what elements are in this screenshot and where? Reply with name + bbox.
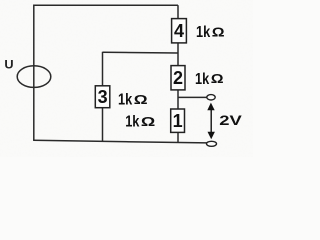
resistor R4 [172, 19, 187, 43]
wire bottom [33, 140, 207, 143]
svg-text:Ω: Ω [141, 115, 155, 129]
svg-text:3: 3 [98, 87, 108, 107]
wire R4 top stub [177, 5, 179, 18]
resistor R2 [171, 66, 185, 90]
svg-text:2: 2 [173, 68, 183, 88]
svg-text:Ω: Ω [211, 72, 224, 86]
svg-text:U: U [4, 58, 13, 72]
wire top [34, 4, 178, 6]
svg-text:2V: 2V [219, 112, 242, 128]
svg-text:1: 1 [173, 111, 183, 131]
svg-text:4: 4 [174, 21, 184, 41]
svg-text:Ω: Ω [212, 26, 225, 40]
wire inner horizontal [103, 51, 179, 54]
wire left [33, 5, 35, 141]
svg-text:1k: 1k [195, 71, 209, 88]
svg-text:1k: 1k [125, 114, 139, 131]
svg-text:Ω: Ω [134, 93, 148, 107]
svg-text:1k: 1k [196, 24, 210, 41]
wire R1 bottom stub [177, 132, 179, 142]
terminal node B (lower) [207, 141, 217, 146]
voltage source U [17, 66, 51, 88]
svg-text:1k: 1k [118, 92, 132, 109]
wire R3 top [102, 52, 104, 86]
wire R4-R2 [177, 43, 179, 66]
wire R2-R1 [177, 90, 179, 109]
wire R3 bottom [102, 108, 104, 142]
resistor R1 [171, 109, 185, 132]
terminal node A (upper) [207, 95, 215, 100]
resistor R3 [95, 86, 110, 108]
2V arrow [207, 103, 215, 140]
wire to terminal A [178, 96, 207, 98]
